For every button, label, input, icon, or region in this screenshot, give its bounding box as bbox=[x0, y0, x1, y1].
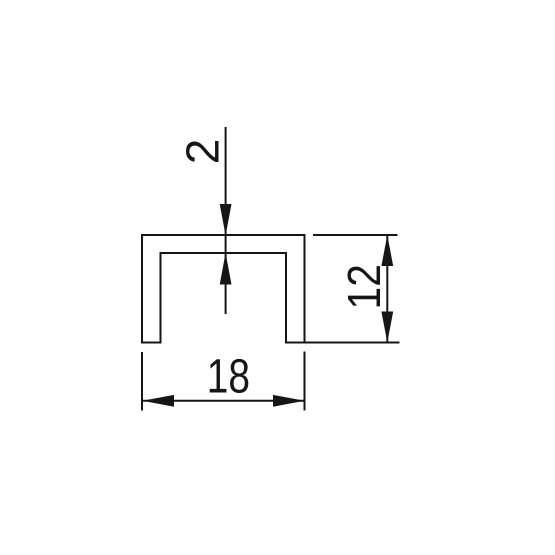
dimension 18: right arrow (points right) bbox=[273, 395, 305, 407]
dimension 2: vertical leader line bbox=[225, 127, 227, 314]
dimension 2: upper arrow (points down at outer top edge) bbox=[220, 204, 232, 236]
dimension 18: right extension line bbox=[304, 352, 306, 411]
dimension 12: top arrow (points up) bbox=[381, 235, 393, 266]
dimension 18: label "18" bbox=[207, 349, 250, 403]
dimension 2: lower arrow (points up at inner top edge) bbox=[220, 253, 232, 285]
dimension 18: left arrow (points left) bbox=[143, 395, 175, 407]
dimension 12: bottom extension line bbox=[286, 342, 400, 344]
svg-text:18: 18 bbox=[207, 349, 250, 403]
dimension 18: left extension line bbox=[141, 352, 143, 411]
dimension 12: top extension line bbox=[313, 234, 398, 236]
dimension 12: vertical dimension line bbox=[386, 235, 388, 343]
dimension 2: label "2" (rotated) bbox=[177, 139, 229, 165]
dimension 12: bottom arrow (points down) bbox=[381, 312, 393, 343]
svg-text:2: 2 bbox=[177, 139, 229, 165]
U-channel profile outline bbox=[142, 235, 305, 343]
svg-text:12: 12 bbox=[340, 264, 391, 309]
dimension 18: horizontal dimension line bbox=[143, 400, 305, 402]
dimension 12: label "12" (rotated) bbox=[340, 264, 391, 309]
